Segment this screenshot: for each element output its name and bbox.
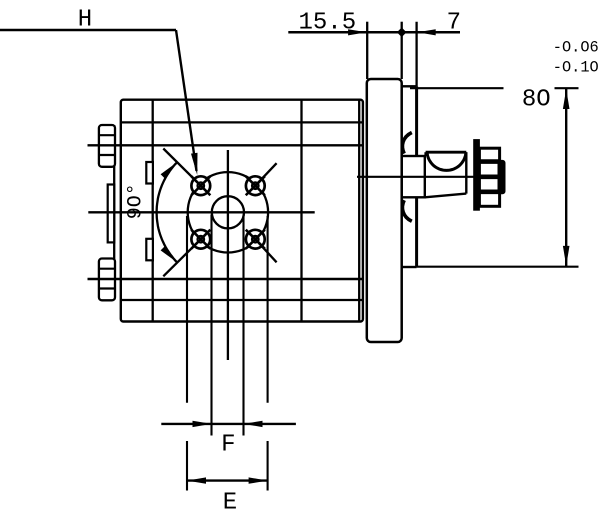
body horizontal line lower [121, 299, 363, 301]
dim F ext line right [242, 215, 244, 436]
shaft taper bottom [425, 194, 467, 198]
hex bolt top facet line 1 [99, 134, 115, 136]
90 deg arc [157, 162, 177, 262]
90 deg arc arrow top [161, 162, 177, 179]
bolt axis line bottom [88, 278, 363, 280]
shaft threaded end [498, 160, 505, 193]
hex bolt head top [99, 125, 115, 167]
body inner vertical line left [152, 100, 154, 322]
dim E line [187, 479, 268, 481]
pilot right edge lower [415, 198, 418, 268]
dim 15.5/7 ext line mid [401, 22, 403, 79]
hex bolt head bottom [99, 259, 115, 301]
hex bolt bottom facet line 1 [99, 268, 115, 270]
label H horizontal line [0, 29, 176, 32]
dim F arrow right [244, 421, 263, 427]
dim E arrow right [249, 477, 268, 483]
dim 7 arrow [417, 29, 436, 35]
hex bolt bottom facet line 2 [99, 287, 115, 289]
port bore circle [212, 196, 244, 228]
rear cover tab [108, 185, 115, 243]
port slot top [146, 162, 153, 184]
port boss circle [188, 172, 268, 252]
washer [474, 140, 480, 211]
dim E ext line left lower [186, 441, 188, 491]
dim E ext line right lower [267, 441, 269, 491]
leader line to bolt [176, 30, 197, 171]
dim 80 line [565, 88, 567, 267]
svg-text:7: 7 [447, 9, 461, 36]
dim 80 arrow down [563, 246, 570, 266]
dim 80 arrow up [563, 89, 570, 109]
pilot right edge upper [415, 86, 418, 156]
dim shared dot [397, 28, 407, 38]
shaft centre line [357, 176, 505, 178]
svg-text:8O: 8O [522, 86, 551, 113]
port bolt bottom-left [163, 230, 210, 277]
svg-text:-O.1O: -O.1O [553, 59, 599, 77]
dim E ext line right upper [267, 216, 269, 403]
dim 15.5 ext line left [366, 22, 368, 79]
port bolt top-right [246, 163, 277, 195]
nut facet line 1 [479, 159, 499, 164]
dim 15.5/7 line [288, 31, 460, 34]
dim 7 ext line right [415, 22, 417, 87]
port centre line vertical [227, 150, 229, 360]
dim F line [161, 423, 296, 425]
leader arrowhead [191, 153, 198, 175]
dim F ext line left [210, 215, 212, 436]
nut outline [479, 148, 499, 206]
fillet crescent bottom [402, 200, 411, 221]
svg-text:F: F [221, 431, 235, 458]
shaft key chord [426, 151, 467, 154]
svg-text:9O°: 9O° [125, 183, 148, 219]
nut facet line 3 [479, 190, 499, 195]
bolt axis line top [88, 144, 363, 146]
svg-text:E: E [223, 489, 237, 513]
port bolt bottom-right [246, 230, 277, 263]
port bolt top-left [163, 149, 210, 196]
fillet crescent top [402, 133, 411, 154]
dim F arrow left [193, 421, 212, 427]
dim 15.5 arrow [348, 29, 367, 35]
90 deg arc arrow bottom [161, 246, 177, 263]
dim E ext line left upper [186, 216, 188, 403]
body inner vertical line right [300, 100, 302, 322]
nut facet line 2 [479, 175, 499, 180]
shaft key arc [427, 152, 466, 170]
dim 80 top ext line b [555, 87, 579, 89]
port centre line horizontal [88, 211, 314, 213]
body right edge inner line [358, 100, 360, 322]
dim E arrow left [187, 477, 206, 483]
rear cover edge line [113, 125, 115, 300]
90 deg text [125, 183, 148, 219]
pilot top edge [402, 85, 417, 87]
pilot bottom edge [402, 266, 417, 268]
dim 80 bottom ext line [417, 266, 579, 268]
shaft taper end edge [465, 152, 467, 193]
body horizontal line upper [121, 121, 363, 123]
hex bolt top facet line 2 [99, 154, 115, 156]
dim 80 top ext line a [410, 87, 504, 89]
port slot bottom [146, 239, 153, 260]
mounting flange [367, 79, 402, 342]
svg-text:-O.O6: -O.O6 [553, 38, 599, 56]
shaft key joint [424, 152, 426, 156]
shaft hub [402, 156, 425, 197]
pump body outline [121, 100, 363, 322]
